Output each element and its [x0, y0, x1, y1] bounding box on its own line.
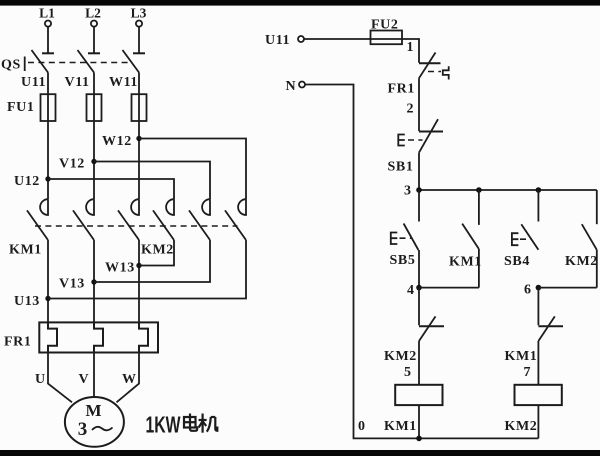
node 3 junction a	[416, 187, 422, 193]
contactor KM1 main contact 2	[73, 199, 94, 240]
svg-text:SB1: SB1	[388, 160, 414, 175]
wire FR1 to motor W	[117, 353, 140, 403]
svg-text:W12: W12	[102, 134, 132, 149]
svg-text:V11: V11	[65, 75, 90, 90]
svg-text:FR1: FR1	[4, 335, 31, 350]
wire fuse3 down to contact	[138, 121, 140, 199]
FR1 heater element 1	[48, 322, 57, 352]
svg-text:SB4: SB4	[504, 254, 530, 269]
svg-text:SB5: SB5	[390, 253, 416, 268]
node W13 junction	[136, 263, 141, 268]
svg-text:4: 4	[407, 283, 415, 298]
wire column5 to V13	[94, 240, 210, 282]
switch QS pole 2	[78, 50, 101, 73]
svg-text:1KW: 1KW	[146, 412, 181, 438]
motor caption 1KW电机	[146, 412, 218, 438]
wire N rail	[305, 85, 538, 439]
wire fuse2 down to contact	[93, 121, 95, 199]
terminal U11	[298, 36, 304, 42]
svg-text:7: 7	[524, 365, 532, 380]
node V13 junction	[91, 279, 96, 284]
svg-text:KM1: KM1	[449, 255, 482, 270]
coil KM2	[515, 385, 562, 405]
terminal L2	[91, 21, 97, 27]
contactor KM2 main contact 3	[225, 199, 246, 240]
switch QS pole 3	[123, 50, 146, 73]
node 3 junction b	[476, 187, 482, 193]
terminal L3	[136, 21, 142, 27]
svg-text:KM1: KM1	[505, 349, 538, 364]
switch QS pole 1	[32, 50, 55, 73]
svg-text:U13: U13	[14, 294, 40, 309]
thermal relay FR1 NC contact	[419, 53, 449, 80]
svg-text:KM1: KM1	[384, 419, 417, 434]
wire FR1 to motor V	[93, 353, 95, 398]
svg-text:KM2: KM2	[141, 243, 174, 258]
QS label	[1, 57, 25, 73]
wire SB5 to node 4	[418, 250, 420, 288]
wire W12 to column 6	[139, 139, 246, 200]
pushbutton SB4 NO	[512, 190, 539, 250]
top border bar	[0, 0, 600, 6]
svg-text:V13: V13	[59, 277, 85, 292]
terminal N	[299, 82, 305, 88]
wire U11 to FU2	[304, 38, 371, 40]
node 3 junction c	[536, 187, 542, 193]
FR1 heater element 2	[94, 322, 103, 352]
wire FU2 to FR1 contact	[402, 39, 419, 63]
svg-text:1: 1	[407, 40, 415, 55]
motor M	[65, 397, 124, 447]
svg-text:FU1: FU1	[7, 100, 34, 115]
wire fuse1 down to contact	[47, 121, 49, 199]
wire L1 to QS	[47, 27, 49, 53]
node U13 junction	[45, 296, 50, 301]
wire U12 to column 4	[48, 179, 174, 199]
terminal L1	[45, 21, 51, 27]
KM1-KM2 linkage dashed line	[35, 225, 238, 227]
svg-text:M: M	[85, 401, 101, 420]
svg-text:KM2: KM2	[505, 419, 538, 434]
contactor KM2 main contact 1	[153, 199, 174, 240]
wire contact3 down	[138, 240, 140, 322]
bottom rail junction	[416, 436, 422, 442]
fuse FU1 pole 2	[87, 94, 102, 121]
svg-text:V: V	[79, 372, 90, 387]
svg-text:KM2: KM2	[565, 254, 598, 269]
wire column4 to W13	[139, 240, 174, 266]
coil KM1	[395, 385, 442, 405]
svg-text:5: 5	[404, 365, 412, 380]
wire node 6 link	[538, 287, 596, 289]
pushbutton SB5 NO	[391, 190, 419, 250]
svg-text:2: 2	[407, 102, 415, 117]
fuse FU1 pole 3	[132, 94, 147, 121]
svg-text:W: W	[122, 372, 137, 387]
node 6 junction	[536, 285, 542, 291]
pushbutton SB1 NC	[398, 119, 443, 152]
svg-text:0: 0	[358, 419, 366, 434]
svg-text:W13: W13	[105, 261, 135, 276]
wire column6 to U13	[48, 240, 246, 299]
node V12 junction	[91, 159, 96, 164]
wire QS1 to FU1	[47, 73, 49, 95]
contactor KM1 main contact 3	[118, 199, 139, 240]
node W12 junction	[136, 136, 141, 141]
svg-text:V12: V12	[59, 157, 85, 172]
svg-text:N: N	[286, 79, 297, 94]
node 4 junction	[416, 285, 422, 291]
wire contact2 down	[93, 240, 95, 322]
wire L3 to QS	[138, 27, 140, 53]
svg-text:U12: U12	[14, 174, 40, 189]
svg-text:U11: U11	[265, 33, 290, 48]
fuse FU1 pole 1	[41, 94, 56, 121]
contactor KM1 main contact 1	[27, 199, 48, 240]
wire V12 to column 5	[94, 162, 210, 200]
wire contact1 down	[47, 240, 49, 322]
node U12 junction	[45, 176, 50, 181]
svg-text:FR1: FR1	[388, 82, 415, 97]
contactor KM1 aux NO contact	[462, 190, 479, 288]
wire coil KM1 to rail	[418, 405, 420, 438]
fuse FU2	[371, 31, 403, 45]
svg-text:6: 6	[524, 283, 532, 298]
svg-text:3: 3	[404, 184, 412, 199]
wire coil KM2 to rail	[537, 405, 539, 438]
svg-text:W11: W11	[109, 75, 138, 90]
wire FR1 to SB1	[418, 78, 420, 131]
contactor KM2 aux NO contact	[582, 190, 597, 288]
wire L2 to QS	[93, 27, 95, 53]
bottom border bar	[0, 450, 600, 456]
contactor KM2 main contact 2	[189, 199, 210, 240]
wire FR1 to motor U	[48, 353, 72, 403]
QS linkage dashed line	[28, 62, 131, 64]
svg-text:KM2: KM2	[384, 349, 417, 364]
svg-text:L3: L3	[131, 6, 147, 21]
svg-text:QS: QS	[1, 58, 21, 73]
contactor KM2 NC interlock	[419, 288, 444, 385]
thermal relay FR1 box	[39, 322, 158, 352]
FR1 heater element 3	[139, 322, 148, 352]
wire QS2 to FU1	[93, 73, 95, 95]
svg-text:U: U	[35, 372, 46, 387]
svg-text:KM1: KM1	[9, 243, 42, 258]
svg-text:U11: U11	[21, 75, 46, 90]
svg-text:L1: L1	[39, 6, 55, 21]
wire node 4 link	[419, 287, 479, 289]
svg-text:L2: L2	[85, 6, 101, 21]
wire SB1 to node 3	[418, 153, 420, 190]
contactor KM1 NC interlock	[538, 288, 563, 385]
node 3 bus	[419, 189, 597, 191]
svg-text:3: 3	[78, 419, 88, 440]
wire QS3 to FU1	[138, 73, 140, 95]
